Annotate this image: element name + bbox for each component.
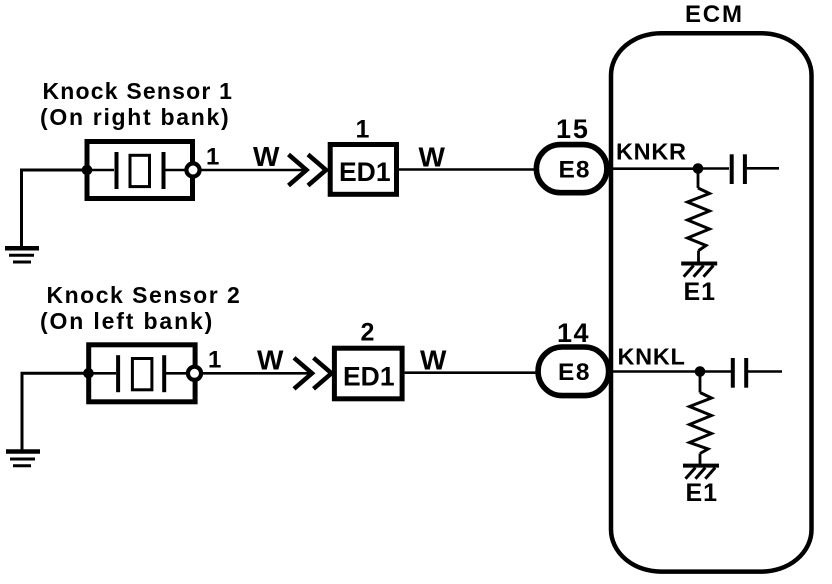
capacitor C1 plate left (730, 154, 734, 184)
wire resistor to ground E1 (row 2) (699, 454, 702, 465)
wire capacitor to right (row 2) (748, 370, 782, 373)
knock sensor KS1 body (87, 142, 193, 199)
connector chevron 2 (row 1) (308, 155, 326, 186)
svg-text:1: 1 (208, 347, 221, 374)
wire capacitor to right (row 1) (747, 167, 779, 170)
svg-text:Knock Sensor 2: Knock Sensor 2 (47, 282, 242, 308)
wire junction to capacitor (row 2) (700, 370, 731, 373)
wire ED1 to E8 (row 2) (405, 371, 537, 374)
svg-text:KNKR: KNKR (616, 139, 687, 165)
wire E8 to junction (row 1) (610, 167, 700, 170)
wire junction down to resistor (row 1) (697, 169, 700, 189)
wire from ground to knock sensor 2 (22, 373, 89, 450)
piezo element plate right (KS1) (162, 152, 166, 189)
node junction KNKL (695, 366, 706, 377)
svg-text:1: 1 (206, 144, 219, 171)
capacitor C2 plate left (731, 358, 735, 388)
wire KS2 to connector arrows (203, 372, 310, 375)
connector E8 oval (row 2) (538, 347, 609, 396)
ground (sensor 2) (6, 452, 40, 466)
svg-text:ED1: ED1 (343, 361, 395, 391)
knock sensor KS2 body (89, 345, 195, 402)
wire E8 to junction (row 2) (611, 370, 702, 373)
terminal circle KS2 pin 1 (188, 367, 201, 380)
piezo element plate right (KS2) (162, 355, 166, 392)
wire inside KS1 right (165, 169, 186, 172)
connector chevron 2 (row 2) (314, 358, 332, 389)
wire resistor to ground E1 (row 1) (697, 251, 700, 263)
svg-text:Knock Sensor 1: Knock Sensor 1 (43, 78, 234, 104)
junction connector ED1 (row 2) (334, 348, 402, 399)
wire inside KS1 left (87, 169, 114, 172)
piezo element plate left (KS2) (116, 355, 120, 392)
junction connector ED1 (row 1) (330, 145, 396, 195)
wire inside KS2 right (166, 372, 188, 375)
capacitor C2 plate right (744, 358, 748, 388)
ground E1 (row 2) (683, 466, 719, 479)
node junction at KS1 left terminal (82, 165, 93, 176)
svg-text:W: W (257, 345, 284, 376)
svg-text:E8: E8 (559, 157, 591, 184)
ground (sensor 1) (5, 248, 39, 262)
resistor R1 (688, 188, 710, 251)
wire ED1 to E8 (row 1) (399, 168, 535, 171)
resistor R2 (690, 393, 712, 454)
connector chevron 1 (row 1) (289, 155, 307, 186)
wire junction to capacitor (row 1) (698, 167, 729, 170)
piezo crystal rectangle (KS1) (130, 155, 150, 186)
node junction KNKR (693, 163, 704, 174)
wire from ground to knock sensor 1 (22, 170, 88, 247)
wire inside KS2 left (89, 372, 117, 375)
piezo crystal rectangle (KS2) (132, 359, 152, 390)
svg-text:W: W (419, 142, 446, 173)
piezo element plate left (KS1) (115, 152, 119, 189)
capacitor C1 plate right (743, 154, 747, 184)
svg-text:(On right bank): (On right bank) (40, 104, 230, 130)
svg-text:E8: E8 (558, 359, 591, 386)
connector chevron 1 (row 2) (294, 358, 312, 389)
wire KS1 to connector arrows (202, 169, 306, 172)
ground E1 (row 1) (681, 264, 717, 277)
node junction at KS2 left terminal (83, 368, 94, 379)
svg-text:E1: E1 (686, 479, 719, 507)
svg-text:14: 14 (557, 318, 590, 348)
svg-text:E1: E1 (684, 278, 717, 306)
svg-text:ECM: ECM (685, 1, 744, 28)
svg-text:W: W (420, 345, 447, 376)
connector E8 oval (row 1) (536, 145, 607, 193)
terminal circle KS1 pin 1 (186, 163, 199, 176)
wire junction down to resistor (row 2) (699, 372, 702, 393)
svg-text:1: 1 (356, 116, 370, 144)
svg-text:2: 2 (361, 319, 375, 347)
svg-text:15: 15 (556, 114, 590, 144)
ECM box U1 (611, 33, 812, 571)
svg-text:ED1: ED1 (339, 157, 391, 187)
svg-text:(On left bank): (On left bank) (40, 308, 214, 334)
svg-text:KNKL: KNKL (618, 344, 686, 370)
svg-text:W: W (253, 141, 280, 172)
